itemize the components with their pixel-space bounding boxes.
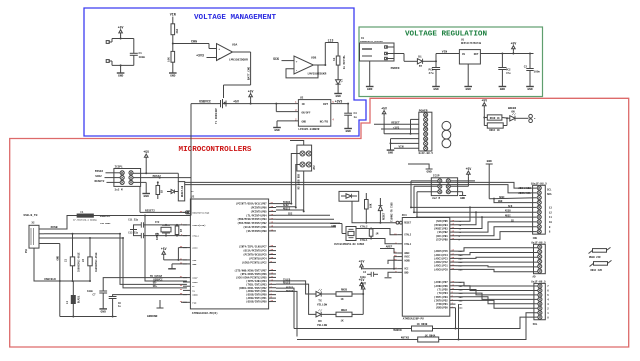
wire +5V icsp [450,177,468,187]
svg-text:GND: GND [367,88,373,91]
svg-text:IO1: IO1 [459,303,464,306]
ground (icsp bottom) [459,196,466,201]
svg-text:-: - [296,70,298,74]
wire TXLED [276,278,316,294]
connector X2 USB [25,222,44,253]
wire U5B feedback [286,65,318,78]
svg-text:BLM21: BLM21 [78,295,81,303]
wire reg out +3V3 [331,103,349,105]
svg-text:OUT: OUT [323,103,328,106]
wire SS2 stub [276,213,330,216]
label +3V3 (opamp) [196,54,204,58]
label SCK [273,57,279,61]
wire u4 gnd [388,272,397,277]
pin numbers U2 regulator [295,101,334,121]
wire JP2 pin1 [290,154,300,205]
mcu U4 reset bubble [396,221,399,224]
svg-text:ADC4/SDA: ADC4/SDA [518,186,531,190]
wire RESET (power hdr) [374,122,419,125]
wire u2 vcc [164,248,187,261]
LED L (yellow) [336,79,343,84]
LED RX (yellow) [316,309,327,327]
capacitor PC2 47u [498,54,511,87]
wire icsp RESET [416,192,438,218]
resistor RN4B 1K [412,323,433,331]
svg-text:MISO2: MISO2 [95,170,104,173]
wire USHIELD [34,248,90,282]
wire M8RXD (u2) [276,287,294,329]
wire UGND [113,295,187,297]
svg-text:RESET(PC1/DW): RESET(PC1/DW) [192,211,209,214]
wire arrow join [512,51,514,53]
wire XTAL1 (u2) [144,235,187,237]
svg-text:USB BOOT EN: USB BOOT EN [297,174,300,190]
wire to ground [172,62,174,73]
wire SCK2 (u2) [276,204,296,207]
svg-text:POWERSUPPLY_DC21MMX: POWERSUPPLY_DC21MMX [360,40,384,43]
wire shield to gnd bus [59,281,61,317]
wire gate drop [224,85,251,98]
svg-text:+3V3: +3V3 [196,54,204,58]
wire UD- (u2) [119,233,187,285]
svg-text:(MISO)PB4: (MISO)PB4 [434,223,448,227]
svg-text:SCK: SCK [273,57,279,61]
wire +5V out (green) [480,53,533,55]
svg-text:GND: GND [433,88,439,91]
svg-text:GND: GND [500,88,506,91]
battery connector J1 [106,39,112,66]
svg-text:3x2 M: 3x2 M [115,189,123,192]
svg-text:(RXD)PD0: (RXD)PD0 [436,306,449,310]
label C3 [354,112,358,119]
wire LED to pad [515,117,528,119]
wire UD+ (u2) [122,237,187,288]
voltage regulation frame [359,27,543,97]
regulator U2 LP2985 [298,96,330,130]
power +5V arrow (battery cct) [118,26,124,36]
svg-text:1u: 1u [354,116,358,119]
ground (power hdr) [387,150,395,155]
wire RXLED [276,282,316,315]
labels SCL SDA [547,188,552,196]
svg-text:IO0: IO0 [459,307,464,310]
svg-text:NC/FB: NC/FB [320,120,329,124]
svg-text:(ADC1)PC1: (ADC1)PC1 [434,264,448,268]
svg-text:D1: D1 [418,56,422,59]
wire UD- (usb) [44,233,120,235]
svg-text:PWRIN: PWRIN [391,67,400,70]
svg-text:XTAL2(PC0): XTAL2(PC0) [192,224,205,227]
wire icsp gnd [450,192,462,196]
svg-text:RESET2: RESET2 [95,180,105,183]
ground (u2) [168,268,176,270]
svg-text:GND: GND [388,152,394,155]
diode D2 [378,198,385,224]
svg-text:USBVCC: USBVCC [199,100,211,104]
ground (regulator) [273,128,281,133]
power +5V arrow (u4 vcc) [359,260,365,270]
svg-text:XT2: XT2 [155,221,160,224]
svg-text:47u: 47u [429,72,434,75]
wire gnd bus bottom [60,316,117,318]
resistor R11 2K4 [171,24,179,35]
wire +5V down [483,108,485,125]
resistor RN1D 1K [484,115,502,120]
wire +5V to loop [120,35,122,40]
svg-text:GND: GND [118,75,124,78]
wire SCK2 (icsp1) [95,175,120,178]
svg-text:(OC1)PB1: (OC1)PB1 [436,234,449,238]
svg-text:SDA: SDA [547,193,552,196]
capacitor C8 1u [109,297,122,317]
svg-text:AVCC: AVCC [192,247,198,250]
svg-text:(SCLK/PCINT1)PB1: (SCLK/PCINT1)PB1 [243,226,267,229]
svg-text:(PCINT5)PB5: (PCINT5)PB5 [251,210,268,213]
svg-text:-: - [218,57,220,61]
wire bundle digital 7-2 [456,282,538,308]
svg-text:GND: GND [466,88,472,91]
wire XTAL2 (u4) [356,226,397,235]
svg-text:10K: 10K [370,203,373,208]
ground (PC1) [432,87,440,92]
wire to green LED [502,117,510,119]
label ADC5/SCL [518,191,531,195]
svg-text:X2: X2 [32,222,36,225]
ground (C7) [99,309,107,314]
wire CHG [173,44,217,49]
svg-text:YELLOW TX: YELLOW TX [342,55,345,69]
wire agnd [388,260,397,264]
svg-text:RN1C 1K: RN1C 1K [489,129,500,132]
label C1 [139,52,146,59]
wire SDA long [185,182,537,188]
svg-text:13: 13 [549,206,553,209]
svg-text:+3V3: +3V3 [393,126,400,129]
labels digital 7-0 [547,285,549,319]
wire M8TXD (u2) [276,290,297,337]
svg-text:(ADC0)PC0: (ADC0)PC0 [434,267,448,271]
svg-text:GND: GND [335,95,341,98]
label VIN [170,14,176,18]
power +5V arrow (icsp1) [143,150,149,160]
diode D2 box [339,191,359,201]
wire loop bottom [112,64,134,66]
svg-text:SCL: SCL [547,188,552,191]
svg-text:C4: C4 [363,271,367,274]
svg-text:CG0603MLC-05LE: CG0603MLC-05LE [95,252,98,272]
connector JP2 [297,145,316,190]
LED ON (green) [510,113,516,121]
svg-text:RX: RX [318,320,322,323]
wire XTAL2 (u2) [144,224,187,226]
diode D1 M7 [417,56,422,69]
power +5V arrow (power hdr) [381,106,387,116]
svg-text:(PCINT6)PB6: (PCINT6)PB6 [251,207,268,210]
wire MISO2 (u2) [276,201,291,204]
power +5V arrow (icsp) [466,167,472,177]
label +3V3 (reg) [335,99,343,103]
svg-text:AGND: AGND [404,259,410,262]
label CHG [191,40,197,44]
svg-text:T1 FDN340P: T1 FDN340P [215,108,218,124]
svg-text:MICROCONTROLLERS: MICROCONTROLLERS [179,146,252,154]
svg-text:IN: IN [302,103,306,106]
wire PB3 stub [276,219,340,227]
svg-text:(INT1)PD3: (INT1)PD3 [434,295,448,299]
svg-text:RN2A: RN2A [341,309,348,312]
svg-text:YELLOW: YELLOW [317,303,328,306]
svg-text:(AIN2/PCINT11)PC2: (AIN2/PCINT11)PC2 [242,261,267,264]
power jack X1 [360,37,395,61]
resistor 1K (yellow led) [333,43,345,70]
wire tx join [352,292,364,315]
svg-text:(AIN0)PD6: (AIN0)PD6 [434,284,448,288]
svg-text:RESET: RESET [383,212,386,220]
wire JP2 top [290,141,304,146]
svg-text:PAD: PAD [192,301,197,304]
capacitor C13 22p [128,231,143,238]
wire ON/OFF branch [276,104,298,112]
svg-text:8x1F-H8.5: 8x1F-H8.5 [419,152,434,155]
svg-text:RN1D 1K: RN1D 1K [490,117,500,120]
diode D3 [167,190,194,194]
wire u4 vcc [362,257,398,270]
resistor RN3C 22R [590,260,612,272]
wire AREF (u4) [380,246,397,253]
resistor RN2A 1K [321,309,352,323]
svg-text:CHG: CHG [191,40,197,44]
svg-text:(T0)PD4: (T0)PD4 [437,291,448,295]
svg-text:RESET: RESET [391,122,400,125]
svg-text:LP2985-33DBVR: LP2985-33DBVR [298,128,319,131]
svg-text:(ADC5)PC5: (ADC5)PC5 [434,249,448,253]
svg-text:(ADC4)PC4: (ADC4)PC4 [434,253,448,257]
svg-text:U5A: U5A [232,44,237,47]
label USBVCC (fuse) [100,215,111,218]
power +5V arrow (green) [511,41,517,51]
svg-text:Z1: Z1 [65,258,68,262]
wire GND (power hdr) [390,139,419,151]
svg-text:UGND: UGND [192,294,198,297]
pad G [529,114,536,122]
svg-text:11: 11 [549,216,553,219]
mcu U4 ATMEGA328P [394,214,463,321]
svg-text:SCK: SCK [508,205,513,208]
svg-text:1K RN4B: 1K RN4B [417,323,428,326]
wire UVCC [145,216,187,282]
connector IOH 8x1F-H8.5 [531,237,546,274]
svg-text:USHIELD: USHIELD [44,278,56,281]
wire loop top [112,38,134,40]
wire X1 to D1 [394,54,417,62]
ground (resonator) [330,224,342,229]
svg-text:C11 22p: C11 22p [128,219,138,222]
wire M8TXD to IOL1 [439,313,538,341]
svg-text:12: 12 [549,211,553,214]
svg-text:TX: TX [318,300,322,303]
label USBVCC [199,100,211,104]
resistor 1M (u4) [369,228,379,240]
wire PAD stub [181,301,187,303]
svg-text:+: + [296,59,298,63]
svg-text:10K: 10K [168,57,171,62]
svg-text:10: 10 [549,221,553,224]
svg-text:CSTCE16M0V53-R0 16MHZ: CSTCE16M0V53-R0 16MHZ [334,243,365,246]
wire X1 gnd [369,61,371,87]
svg-text:ADC5/SCL: ADC5/SCL [518,191,531,195]
svg-text:LMV358IDGKR: LMV358IDGKR [308,72,327,75]
svg-text:47u: 47u [506,72,511,75]
wire D12 [414,210,537,225]
wire +3V3 to opamp [207,57,217,59]
capacitor C3 [344,104,352,129]
wire SCL long [185,185,537,193]
mosfet T1 FDN340P [215,99,230,124]
svg-text:VCC: VCC [404,268,409,271]
svg-text:2K4: 2K4 [176,28,179,33]
svg-text:XTAL1: XTAL1 [192,235,199,238]
svg-text:(ADC3)PC3: (ADC3)PC3 [434,256,448,260]
wire bundle analog A0-A5 [456,248,538,272]
svg-text:(ADC2)PC2: (ADC2)PC2 [434,260,448,264]
svg-text:VCC: VCC [192,259,197,262]
varistor Z1 [65,234,81,281]
wire LED to gnd [337,84,339,93]
svg-text:ICSP: ICSP [433,175,440,178]
resistor 1K (dtr) [156,181,164,199]
wire M8TXD run [297,336,418,339]
title MICROCONTROLLERS [179,146,252,154]
wire VIN (power hdr) [394,146,419,149]
label PWRIN [391,67,400,70]
resistor RN1A 10K [365,193,373,224]
wire U1 gnd [467,64,469,87]
regulator U1 NCP1117 [459,39,481,64]
svg-text:LMV358IDGKR: LMV358IDGKR [229,59,248,62]
svg-text:GND: GND [427,170,432,173]
svg-text:(SCK)PB5: (SCK)PB5 [436,219,449,223]
svg-text:(PCINT10)PC4: (PCINT10)PC4 [249,257,267,260]
svg-text:U2: U2 [300,96,304,99]
svg-text:UCAP: UCAP [192,277,198,280]
label fuse [73,219,111,225]
wire M8RXD to IOL0 [433,317,538,329]
wire VIN [172,17,174,24]
wire +5V rail [230,103,298,105]
wire u2 gnd pin [172,264,187,269]
wire UD+ (usb) [44,237,123,239]
op-amp U5B [294,56,327,75]
svg-text:AREF: AREF [499,196,505,199]
svg-text:8x1F-H8.5: 8x1F-H8.5 [531,280,546,283]
label L13 [328,39,334,43]
svg-text:U2: U2 [191,196,195,199]
svg-text:(T1)PD5: (T1)PD5 [437,288,448,292]
svg-text:GND: GND [498,200,503,203]
svg-text:M7: M7 [419,65,423,68]
ground (yellow led) [334,94,342,99]
capacitor C2 100n [524,54,541,87]
svg-text:GND: GND [345,130,351,133]
svg-text:1K RN4A: 1K RN4A [425,335,436,338]
title VOLTAGE MANAGEMENT [194,14,276,22]
wire usb gnd [44,244,60,282]
svg-text:VOLTAGE REGULATION: VOLTAGE REGULATION [405,31,487,39]
svg-text:AD: AD [533,276,537,279]
svg-text:GND: GND [101,311,107,314]
svg-text:72Ω DROP: 72Ω DROP [100,222,111,225]
wire USBVCC riser [190,104,192,216]
svg-text:RN3B 22R: RN3B 22R [589,256,601,259]
wire U5B out [313,64,326,66]
svg-text:IOL: IOL [533,323,538,326]
connector POWER 8x1F-H8.5 [419,109,434,154]
svg-text:GROUND: GROUND [147,315,158,318]
wire JP2 pin4 [303,171,305,212]
wire RESET2 to U2 [140,186,189,214]
svg-text:U5B: U5B [311,57,316,60]
wire reset (u4) [352,201,397,223]
svg-text:ZU4: ZU4 [402,214,407,217]
svg-text:ATMEGA16U2-MU(R): ATMEGA16U2-MU(R) [192,311,218,315]
resistor 1M (xtal u2) [175,224,183,237]
svg-text:1M: 1M [180,229,183,232]
jumper RESET-EN [178,182,184,201]
LED TX (yellow) [316,289,327,307]
svg-text:(PCINT9/OC1B)PC5: (PCINT9/OC1B)PC5 [243,254,267,257]
wire reg gnd [277,121,298,128]
wire MOSI2 (u2) [276,207,304,210]
ground (U1) [464,87,472,92]
label T16MHZ [391,202,394,222]
svg-text:M8RXD: M8RXD [393,329,402,332]
power +5V arrow (u2 vcc) [161,247,167,257]
wire GND to hdr [494,199,537,204]
wire UCAP [103,275,187,291]
svg-text:(T1/PCINT4)PB4: (T1/PCINT4)PB4 [246,214,267,217]
power +5V arrow (rail) [248,89,254,99]
wire D11 [417,215,537,229]
capacitor PC1 47u [429,61,441,86]
ground (battery) [117,73,125,78]
svg-text:AVCC: AVCC [404,256,410,259]
ground (divider) [169,73,177,78]
svg-text:(OC0B/INT0)PD0: (OC0B/INT0)PD0 [246,301,267,304]
svg-text:GND: GND [460,197,465,200]
svg-text:GND: GND [487,160,492,163]
svg-text:(INT4/ICP1/CLKO)PC7: (INT4/ICP1/CLKO)PC7 [239,246,267,249]
svg-text:(SS/PCINT0)PB0: (SS/PCINT0)PB0 [246,230,267,233]
svg-text:BATT_CHG: BATT_CHG [247,66,250,80]
ground (C2) [526,87,534,92]
wire D10 [456,219,537,232]
mounting holes [442,121,451,147]
wire icsp SCK [413,186,438,213]
svg-text:(PDO/MISO/PCINT3)PB3: (PDO/MISO/PCINT3)PB3 [237,218,267,221]
resistor RN3B 22R [589,247,611,259]
svg-text:+3V3: +3V3 [335,99,343,103]
svg-text:(MOSI)PB3: (MOSI)PB3 [434,227,448,231]
resistor RN1C 1K [484,118,507,132]
svg-text:1K: 1K [333,57,336,61]
wire +5V icsp1 [133,160,178,182]
label GREEN ON [508,107,517,114]
crystal XT2 16MHZ [155,221,171,240]
wire USBVCC run [94,215,192,217]
svg-text:3x2 M: 3x2 M [432,197,440,200]
wire RESET2 (icsp1) [95,180,121,183]
wire to ground [120,65,122,73]
